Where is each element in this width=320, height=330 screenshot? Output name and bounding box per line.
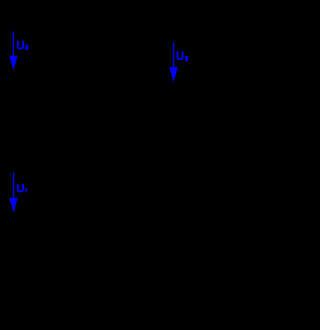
terminal node B <box>28 88 33 93</box>
wire bottom of top loop <box>30 89 165 91</box>
label U3 <box>178 51 188 61</box>
label U2 <box>18 41 28 50</box>
voltage source U2 (left branch of top loop) <box>16 20 44 90</box>
wire top left <box>30 19 165 21</box>
resistor R2 <box>158 38 172 74</box>
terminal node A <box>28 18 33 23</box>
wire lower loop right <box>30 165 165 230</box>
voltage arrow U2 (top left) <box>9 31 17 70</box>
voltage arrow U1 (middle left) <box>9 173 17 213</box>
resistor R1 (left branch of lower loop) <box>23 165 37 230</box>
label U1 <box>18 184 27 193</box>
wire right side <box>164 20 166 90</box>
voltage arrow U3 (top right) <box>169 42 177 82</box>
wire lower loop top <box>30 164 165 166</box>
